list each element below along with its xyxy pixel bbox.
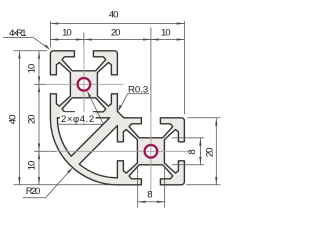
- dim 20 right: [215, 118, 217, 185]
- svg-text:2×φ4.2: 2×φ4.2: [61, 114, 94, 125]
- centerline node B vertical: [150, 112, 152, 193]
- label 2x phi 4.2: [60, 112, 96, 123]
- svg-text:20: 20: [205, 148, 216, 158]
- dim 40 left: [18, 51, 20, 185]
- dim 40 top: [50, 23, 184, 25]
- centerline node A vertical: [83, 45, 85, 126]
- svg-text:10: 10: [27, 161, 38, 171]
- extension lines top: [49, 21, 51, 47]
- svg-text:10: 10: [27, 64, 38, 74]
- svg-text:20: 20: [111, 28, 121, 39]
- svg-text:10: 10: [161, 28, 171, 39]
- centerline node B horizontal: [56, 150, 191, 152]
- svg-text:40: 40: [7, 115, 18, 125]
- dim 10/20/10 top: [50, 39, 184, 41]
- extension lines right: [187, 117, 220, 119]
- dim 8 right: [199, 138, 201, 165]
- hole fill node A: [77, 77, 92, 92]
- svg-text:10: 10: [62, 28, 72, 39]
- dim 8 bottom: [138, 201, 165, 203]
- svg-text:8: 8: [187, 149, 198, 154]
- hole phi4.2 ring node B: [145, 145, 158, 158]
- svg-text:R20: R20: [26, 186, 41, 197]
- extension lines bottom: [137, 167, 139, 208]
- svg-text:4×R1: 4×R1: [9, 28, 27, 39]
- extension lines left: [14, 50, 48, 52]
- dim 10/20/10 left: [38, 51, 40, 185]
- svg-text:40: 40: [109, 10, 119, 21]
- hole fill node B: [144, 144, 159, 159]
- svg-text:8: 8: [147, 189, 152, 200]
- extrusion profile cross-section (40x40 L corner): [50, 51, 184, 185]
- hole phi4.2 ring node A: [78, 78, 91, 91]
- centerline node A horizontal: [46, 83, 124, 85]
- svg-text:20: 20: [27, 115, 38, 125]
